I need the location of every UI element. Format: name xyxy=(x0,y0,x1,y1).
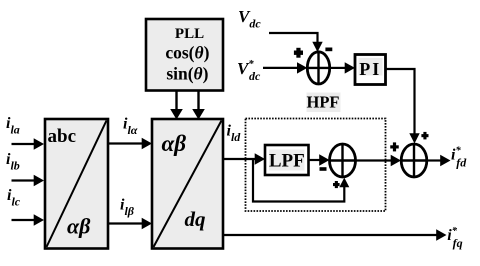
block U1 PLL (PLL / cos-theta / sin-theta generator) xyxy=(146,19,223,91)
svg-text:PI: PI xyxy=(359,59,381,79)
wire PLL sin output to dq block xyxy=(192,91,205,120)
wire i_fq* output from dq block xyxy=(223,229,447,240)
plus sign at S1 left input xyxy=(294,48,303,58)
wire PI output down to S3 top xyxy=(386,69,420,144)
svg-text:LPF: LPF xyxy=(269,151,305,172)
wire input i_la xyxy=(12,138,45,149)
svg-text:abc: abc xyxy=(48,126,77,147)
HPF dotted boundary box xyxy=(246,119,386,212)
svg-text:cos(θ): cos(θ) xyxy=(165,43,209,63)
svg-text:PLL: PLL xyxy=(175,26,204,42)
wire i_ld from dq block to LPF xyxy=(223,153,265,164)
HPF label xyxy=(307,93,341,113)
svg-text:HPF: HPF xyxy=(307,93,340,112)
summer S2 (HPF subtraction node) xyxy=(330,144,356,177)
plus sign at S3 top input xyxy=(421,132,428,140)
minus sign at S1 top input xyxy=(325,48,332,52)
wire LPF output to summer S2 xyxy=(309,154,330,165)
block alpha-beta to dq transform xyxy=(152,119,223,249)
wire feedback bypass (i_ld direct path) into S2 bottom xyxy=(253,159,349,202)
block LPF xyxy=(265,145,309,175)
svg-text:αβ: αβ xyxy=(162,131,187,156)
wire S1 output to PI xyxy=(330,62,355,73)
wire i_l-alpha from abc block to dq block xyxy=(108,138,152,149)
block abc to alpha-beta transform xyxy=(45,119,108,249)
wire input i_lb xyxy=(12,175,45,186)
summer S3 (output summation node) xyxy=(401,144,427,177)
plus sign at S3 left input xyxy=(390,142,399,151)
svg-text:sin(θ): sin(θ) xyxy=(166,64,208,84)
wire V_dc to summer S1 top xyxy=(269,33,323,52)
wire i_l-beta from abc block to dq block xyxy=(108,218,152,229)
summer S1 (dc voltage error node) xyxy=(307,52,329,84)
svg-text:αβ: αβ xyxy=(67,214,91,239)
block PI controller xyxy=(355,55,386,85)
svg-text:dq: dq xyxy=(185,207,206,231)
wire V_dc_ref to summer S1 left xyxy=(263,62,307,73)
wire S2 output to summer S3 xyxy=(356,155,402,166)
plus sign at S2 bottom input xyxy=(333,181,340,188)
wire input i_lc xyxy=(12,214,45,225)
wire PLL cos output to dq block xyxy=(170,91,183,120)
wire S3 output i_fd* xyxy=(427,155,451,166)
minus sign at S2 input xyxy=(320,167,327,171)
